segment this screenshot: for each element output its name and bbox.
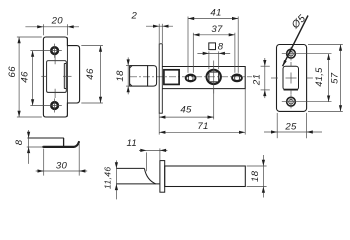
dimension 46 (screw hole spacing): [32, 51, 34, 106]
dimension 37 (inner slot spacing): [192, 33, 194, 73]
dimension 41,5 (hole spacing): [328, 54, 330, 102]
screw hole top (plate): [51, 47, 58, 54]
svg-text:11: 11: [126, 138, 137, 149]
dimension 2 (faceplate thickness): [158, 24, 160, 43]
faceplate outline: [277, 45, 307, 112]
svg-text:41: 41: [210, 7, 221, 18]
center marks of opening: [286, 77, 297, 79]
svg-text:41,5: 41,5: [314, 67, 324, 87]
svg-text:45: 45: [180, 105, 192, 116]
svg-text:30: 30: [56, 160, 68, 171]
svg-text:66: 66: [7, 66, 18, 78]
dimension 66 (plate height): [17, 36, 42, 38]
svg-text:11,46: 11,46: [103, 166, 113, 189]
svg-text:46: 46: [20, 71, 31, 83]
svg-text:25: 25: [284, 121, 297, 132]
dimension 18 (bolt width): [126, 65, 130, 67]
svg-text:18: 18: [115, 70, 126, 82]
square spindle hole 8: [209, 72, 219, 82]
dimension 18 (case height): [247, 165, 267, 167]
dimension 45 (backset): [213, 89, 215, 119]
svg-text:57: 57: [329, 72, 340, 84]
dimension 21 (opening height): [261, 65, 270, 67]
slot hole left: [186, 75, 196, 82]
svg-text:2: 2: [130, 10, 137, 21]
fold line of tab: [66, 37, 68, 116]
screw hole top (faceplate): [287, 49, 296, 58]
dimension 25 (faceplate width): [276, 113, 278, 138]
dimension 11 (bolt throw): [146, 152, 148, 171]
svg-text:20: 20: [51, 16, 64, 27]
plate in section (thick) with curled lip: [43, 142, 79, 147]
faceplate side: [160, 161, 165, 193]
dimension 41 (outer slot spacing): [187, 17, 189, 73]
dimension 30 (plate depth): [43, 149, 45, 176]
svg-text:21: 21: [252, 74, 263, 86]
svg-text:18: 18: [250, 170, 261, 182]
spring box: [164, 70, 179, 85]
screw hole bottom (faceplate): [287, 97, 296, 106]
svg-text:46: 46: [85, 68, 96, 80]
latch cutout in plate: [47, 61, 67, 93]
bolt side profile: [116, 167, 144, 169]
faceplate edge-on: [159, 44, 162, 113]
tongue bend: [63, 138, 65, 146]
svg-text:37: 37: [211, 24, 223, 35]
dimension 57 (faceplate height): [308, 44, 343, 46]
svg-text:8: 8: [218, 41, 224, 52]
leader diameter 5: [283, 16, 308, 67]
dimension square 8 (spindle): [208, 51, 210, 69]
bolt rounded head: [148, 66, 157, 87]
bent tongue top line: [28, 137, 64, 139]
latch bolt: [130, 66, 148, 87]
screw hole bottom (plate): [51, 102, 58, 109]
dimension 8 (profile height): [27, 146, 44, 148]
latch opening: [283, 66, 299, 90]
slot hole right: [232, 75, 242, 82]
plate centerline marks: [271, 77, 278, 79]
spindle boss: [207, 70, 221, 84]
center marks of cutout: [41, 75, 46, 77]
latch case: [162, 67, 245, 89]
strike plate outline with side tab: [43, 37, 79, 117]
dimension 71 (case length): [158, 113, 160, 134]
bent tongue edge in cutout: [63, 64, 65, 89]
axis centerline: [130, 76, 252, 78]
svg-text:8: 8: [14, 139, 25, 145]
dimension 20 (plate width): [42, 24, 44, 35]
svg-text:71: 71: [197, 121, 208, 132]
dimension 46 (tab height): [81, 45, 103, 47]
dimension 11,46 (bolt height): [115, 160, 117, 199]
case side: [165, 166, 246, 187]
